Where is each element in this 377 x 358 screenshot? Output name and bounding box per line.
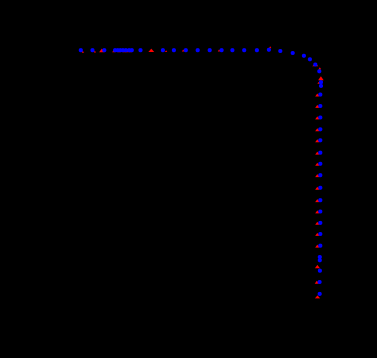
red triangle fragment t19 (315, 152, 319, 155)
blue dot P25 (308, 57, 312, 61)
blue dot marker series (79, 48, 323, 296)
blue dot P23 (291, 51, 295, 55)
blue dot P37 (318, 173, 322, 177)
red triangle fragment t3 (112, 50, 115, 53)
blue dot P13 (172, 48, 176, 52)
blue dot P38 (318, 186, 322, 190)
blue dot P3 (102, 48, 106, 52)
red triangle fragment t7 (129, 50, 132, 53)
blue dot P24 (302, 54, 306, 58)
red triangle fragment t10 (218, 50, 220, 52)
blue dot P40 (318, 209, 322, 213)
red triangle fragment t15 (315, 105, 319, 108)
blue dot P34 (318, 138, 322, 142)
red triangle T4 (318, 76, 324, 80)
red triangle fragment t24 (315, 210, 319, 213)
red triangle fragment t25 (315, 222, 319, 225)
blue dot P26 (313, 62, 317, 66)
blue dot P46 (318, 269, 322, 273)
red triangle fragment t26 (315, 233, 319, 236)
red triangle fragment t27 (315, 245, 319, 248)
blue dot P8 (124, 48, 128, 52)
red triangle T5 (315, 265, 320, 268)
red triangle T1 (99, 49, 104, 53)
red triangle fragment t1 (82, 51, 84, 53)
red triangle fragment t22 (315, 187, 319, 190)
red triangle T6 (315, 295, 320, 298)
blue dot P35 (318, 151, 322, 155)
blue dot P31 (318, 104, 322, 108)
blue dot P7 (121, 48, 125, 52)
blue dot P44 (318, 255, 322, 259)
red triangle fragment t21 (315, 174, 319, 177)
blue dot P17 (220, 48, 224, 52)
red triangle fragment t8 (165, 50, 167, 52)
blue dot P6 (118, 48, 122, 52)
blue dot P22 (278, 49, 282, 53)
red triangle fragment t23 (315, 199, 319, 202)
blue dot P32 (318, 115, 322, 119)
red triangle fragment t14 (315, 94, 319, 97)
blue dot P11 (138, 48, 142, 52)
blue dot P43 (318, 244, 322, 248)
red triangle fragment t18 (315, 139, 319, 142)
blue dot P45 (318, 258, 322, 262)
red triangle fragment t11 (269, 46, 271, 48)
blue dot P20 (255, 48, 259, 52)
red triangle fragment t6 (125, 50, 128, 53)
blue dot P5 (116, 48, 120, 52)
red triangle fragment t17 (315, 128, 319, 131)
blue dot P1 (79, 48, 83, 52)
blue dot P19 (242, 48, 246, 52)
blue dot P16 (208, 48, 212, 52)
blue dot P21 (267, 48, 271, 52)
blue dot P9 (127, 48, 131, 52)
blue dot P29 (319, 84, 323, 88)
red triangle marker series (82, 46, 324, 298)
blue dot P47 (318, 280, 322, 284)
blue dot P18 (230, 48, 234, 52)
red triangle fragment t16 (315, 116, 319, 119)
red triangle fragment t28 (315, 281, 319, 284)
blue dot P27 (317, 69, 321, 73)
red triangle fragment t9 (182, 50, 185, 52)
blue dot P4 (113, 48, 117, 52)
blue dot P2 (90, 48, 94, 52)
red triangle fragment t5 (122, 50, 125, 53)
blue dot P15 (196, 48, 200, 52)
blue dot P48 (318, 292, 322, 296)
blue dot P14 (184, 48, 188, 52)
blue dot P28 (319, 80, 323, 84)
red triangle fragment t2 (94, 51, 96, 53)
red triangle fragment t13 (317, 82, 319, 84)
blue dot P41 (318, 221, 322, 225)
red triangle fragment t12 (319, 67, 322, 69)
blue dot P33 (318, 127, 322, 131)
blue dot P42 (318, 232, 322, 236)
red triangle fragment t20 (315, 163, 319, 166)
red triangle T3 (312, 63, 318, 66)
red triangle T2 (148, 49, 154, 52)
blue dot P30 (318, 93, 322, 97)
blue dot P12 (161, 48, 165, 52)
blue dot P10 (130, 48, 134, 52)
red triangle fragment t4 (118, 50, 121, 53)
blue dot P39 (318, 198, 322, 202)
blue dot P36 (318, 162, 322, 166)
